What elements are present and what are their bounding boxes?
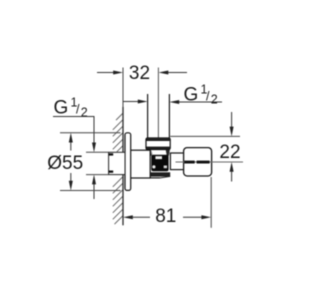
svg-text:81: 81 — [155, 206, 176, 227]
wall line — [122, 107, 124, 225]
svg-text:2: 2 — [81, 106, 88, 120]
G1/2 top-right left arrow — [123, 100, 148, 104]
leader G1/2 left: underline + corner + down arrow — [53, 117, 96, 153]
svg-text:22: 22 — [219, 142, 240, 163]
dim 32 extension line left (wall face) — [122, 68, 124, 108]
handle (black oval knob) — [151, 155, 168, 171]
outlet compression nut — [184, 148, 212, 176]
svg-text:Ø55: Ø55 — [47, 153, 83, 174]
wall hatching lower band — [113, 177, 123, 224]
label G 1/2 left — [54, 96, 88, 120]
svg-text:2: 2 — [211, 93, 218, 107]
outlet neck — [170, 153, 183, 170]
collar of top connection — [146, 138, 170, 150]
inlet nipple G1/2 — [109, 152, 125, 174]
dim 22 top extension line — [170, 135, 240, 137]
dia55 down arrow — [69, 173, 73, 191]
dia55 extension lines — [60, 132, 121, 134]
dim 81 left arrow — [123, 215, 150, 219]
svg-text:/: / — [76, 103, 80, 117]
dim 22 up arrow — [230, 162, 234, 182]
dim 22 down arrow — [230, 112, 234, 136]
hex body — [130, 150, 150, 178]
dim 32 line right arrow — [159, 71, 188, 75]
outlet axis line — [176, 161, 244, 163]
wall hatching upper band — [113, 114, 123, 152]
wall flange — [125, 133, 131, 191]
dim 32 line left arrow — [97, 71, 123, 75]
thread extension lines left — [86, 151, 109, 153]
label G 1/2 top-right — [184, 83, 218, 107]
top pipe (riser) — [147, 94, 149, 139]
svg-text:32: 32 — [129, 63, 150, 84]
svg-text:G: G — [54, 98, 69, 119]
bonnet shoulder — [146, 150, 170, 156]
leader line G1/2 top-right with arrow — [169, 100, 222, 104]
dim 32 extension / axis line of top connection — [157, 68, 159, 150]
G1/2 left up arrow — [92, 175, 96, 199]
body under handle — [150, 172, 170, 178]
dia55 up arrow — [69, 133, 73, 151]
svg-text:/: / — [206, 90, 210, 104]
dim 81 right extension line — [210, 177, 212, 228]
dim 81 right arrow — [183, 215, 211, 219]
nut groove dashes — [184, 161, 194, 164]
